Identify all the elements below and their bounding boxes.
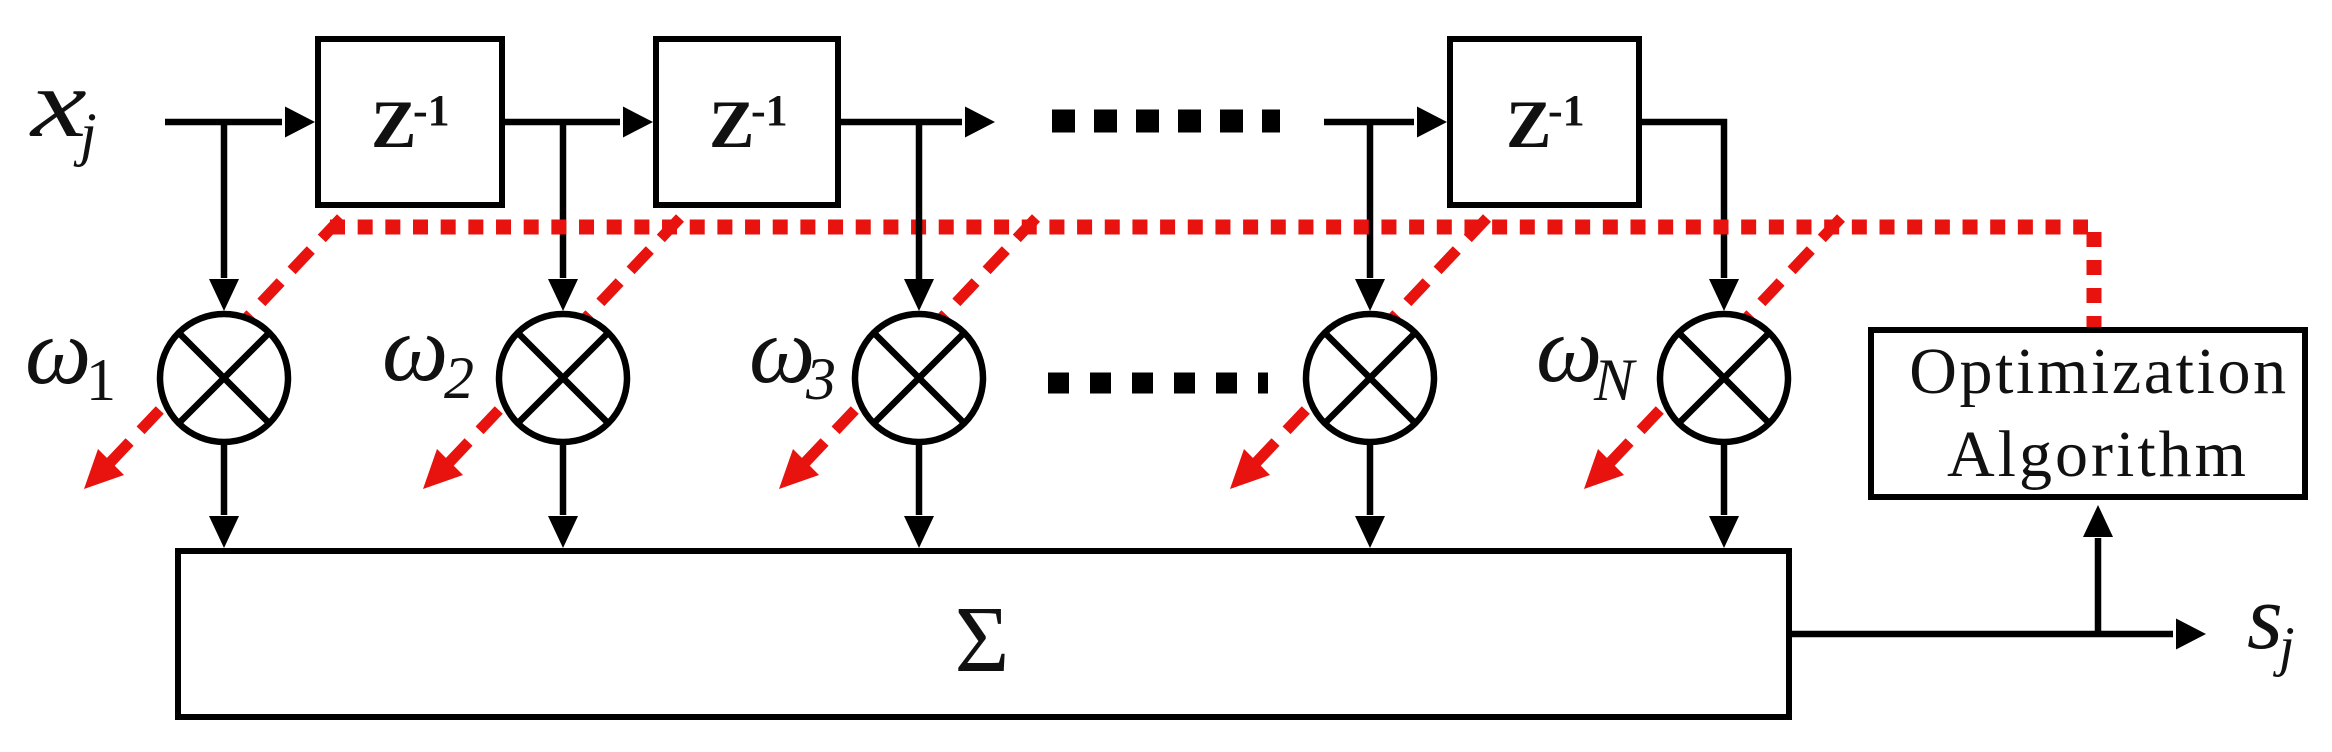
wire: M2 to summation xyxy=(560,444,567,515)
arrowhead into summation from M2 xyxy=(548,516,578,548)
multiplier M2 xyxy=(499,314,627,442)
svg-text:Algorithm: Algorithm xyxy=(1947,418,2249,491)
arrowhead into D2 xyxy=(623,107,653,138)
arrowhead into M3 xyxy=(904,279,934,311)
svg-text:Z: Z xyxy=(709,86,754,162)
wire: M3 input arrow from ellipsis row xyxy=(916,122,923,281)
svg-text:-1: -1 xyxy=(1548,86,1585,135)
arrowhead into M4 xyxy=(1355,279,1385,311)
arrowhead into summation from M1 xyxy=(209,516,239,548)
wire: input into D1 xyxy=(165,119,282,126)
arrowhead into summation from M5 xyxy=(1709,516,1739,548)
weight label w2 xyxy=(382,297,474,411)
red dashed weight-update arrow to M5 xyxy=(1584,218,1841,489)
svg-text:x: x xyxy=(29,50,87,158)
arrowhead into D3 xyxy=(1417,107,1447,138)
wire: summation output xyxy=(1789,631,2173,638)
arrowhead into D1 xyxy=(285,107,315,138)
ellipsis dots top row xyxy=(1052,110,1280,133)
delay block D1 Z^-1 xyxy=(318,39,502,205)
red dashed weight-update arrow to M4 xyxy=(1230,218,1487,489)
wire: branch down to multiplier M4 xyxy=(1367,119,1374,278)
summation block Sigma xyxy=(178,551,1789,717)
arrowhead into summation from M3 xyxy=(904,516,934,548)
svg-text:ω: ω xyxy=(382,297,448,401)
weight label w1 xyxy=(25,300,116,413)
wire: D3 output corner down to multiplier M5 xyxy=(1642,122,1724,278)
wire: M3 to summation xyxy=(916,444,923,515)
svg-text:Σ: Σ xyxy=(955,588,1010,692)
multiplier M4 xyxy=(1306,314,1434,442)
delay block D3 Z^-1 xyxy=(1450,39,1639,205)
multiplier M1 xyxy=(160,314,288,442)
svg-text:-1: -1 xyxy=(751,86,788,135)
wire: ellipsis to D3 xyxy=(1324,119,1414,126)
arrowhead into M1 xyxy=(209,279,239,311)
arrowhead into M2 xyxy=(548,279,578,311)
red dotted feedback line vertical into optimization block xyxy=(2087,232,2102,331)
svg-text:2: 2 xyxy=(444,345,474,411)
arrowhead into summation from M4 xyxy=(1355,516,1385,548)
optimization algorithm block xyxy=(1871,330,2305,497)
arrowhead at output s_j xyxy=(2176,619,2206,650)
svg-text:Z: Z xyxy=(1506,86,1551,162)
input label x_j xyxy=(29,50,97,167)
multiplier M3 xyxy=(855,314,983,442)
wire: M5 to summation xyxy=(1721,444,1728,515)
weight label wN xyxy=(1536,298,1637,413)
weight label w3 xyxy=(749,299,836,412)
svg-text:Z: Z xyxy=(371,86,416,162)
svg-text:-1: -1 xyxy=(413,86,450,135)
arrowhead into M5 xyxy=(1709,279,1739,311)
svg-text:1: 1 xyxy=(86,347,116,413)
wire: output branch up to optimization block xyxy=(2095,538,2102,637)
delay block D2 Z^-1 xyxy=(656,39,838,205)
svg-text:ω: ω xyxy=(25,300,91,404)
wire: branch down to multiplier M2 xyxy=(560,119,567,278)
wire: D2 output toward ellipsis xyxy=(841,119,962,126)
output label s_j xyxy=(2247,566,2295,678)
wire: D1 to D2 xyxy=(505,119,620,126)
arrowhead into optimization block xyxy=(2083,505,2113,537)
red dashed weight-update arrow to M2 xyxy=(423,218,680,489)
svg-text:ω: ω xyxy=(1536,298,1602,402)
svg-text:s: s xyxy=(2247,566,2283,668)
arrowhead at ellipsis xyxy=(965,107,995,138)
wire: M4 to summation xyxy=(1367,444,1374,515)
red dotted feedback line horizontal xyxy=(330,220,2088,235)
svg-text:N: N xyxy=(1593,347,1637,413)
wire: M1 to summation xyxy=(221,444,228,515)
svg-text:3: 3 xyxy=(805,346,836,412)
wire: branch down to multiplier M1 xyxy=(221,119,228,278)
multiplier M5 xyxy=(1660,314,1788,442)
ellipsis dots middle row xyxy=(1048,373,1268,394)
svg-text:Optimization: Optimization xyxy=(1909,335,2288,408)
red dashed weight-update arrow to M3 xyxy=(779,218,1036,489)
red dashed weight-update arrow to M1 xyxy=(84,218,341,489)
